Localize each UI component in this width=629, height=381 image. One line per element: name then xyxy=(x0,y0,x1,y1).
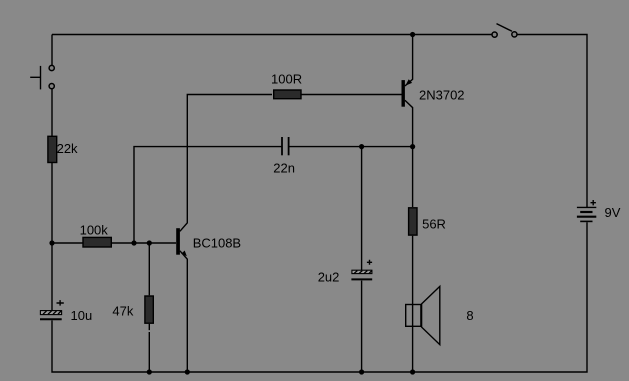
svg-text:47k: 47k xyxy=(112,304,133,319)
svg-text:56R: 56R xyxy=(422,217,446,232)
svg-text:2N3702: 2N3702 xyxy=(419,87,465,102)
svg-text:8: 8 xyxy=(466,308,473,323)
svg-text:BC108B: BC108B xyxy=(193,236,241,251)
svg-text:100k: 100k xyxy=(80,222,109,237)
svg-text:2u2: 2u2 xyxy=(318,270,340,285)
svg-text:22n: 22n xyxy=(273,160,295,175)
svg-text:10u: 10u xyxy=(71,308,93,323)
svg-text:100R: 100R xyxy=(271,72,302,87)
svg-text:9V: 9V xyxy=(605,205,621,220)
svg-text:22k: 22k xyxy=(57,141,78,156)
